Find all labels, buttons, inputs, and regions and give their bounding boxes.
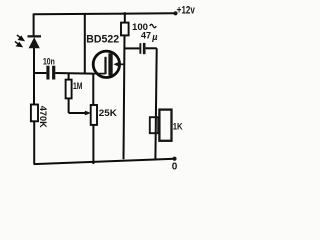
svg-text:+12v: +12v: [177, 5, 196, 17]
svg-text:1M: 1M: [73, 81, 83, 91]
svg-text:1K: 1K: [173, 121, 183, 132]
svg-text:47: 47: [141, 30, 151, 40]
svg-text:BD522: BD522: [86, 34, 119, 46]
svg-text:25K: 25K: [99, 108, 117, 119]
svg-text:0: 0: [172, 161, 178, 172]
svg-text:µ: µ: [151, 32, 157, 42]
svg-text:470K: 470K: [37, 106, 48, 128]
svg-text:10n: 10n: [43, 57, 55, 67]
